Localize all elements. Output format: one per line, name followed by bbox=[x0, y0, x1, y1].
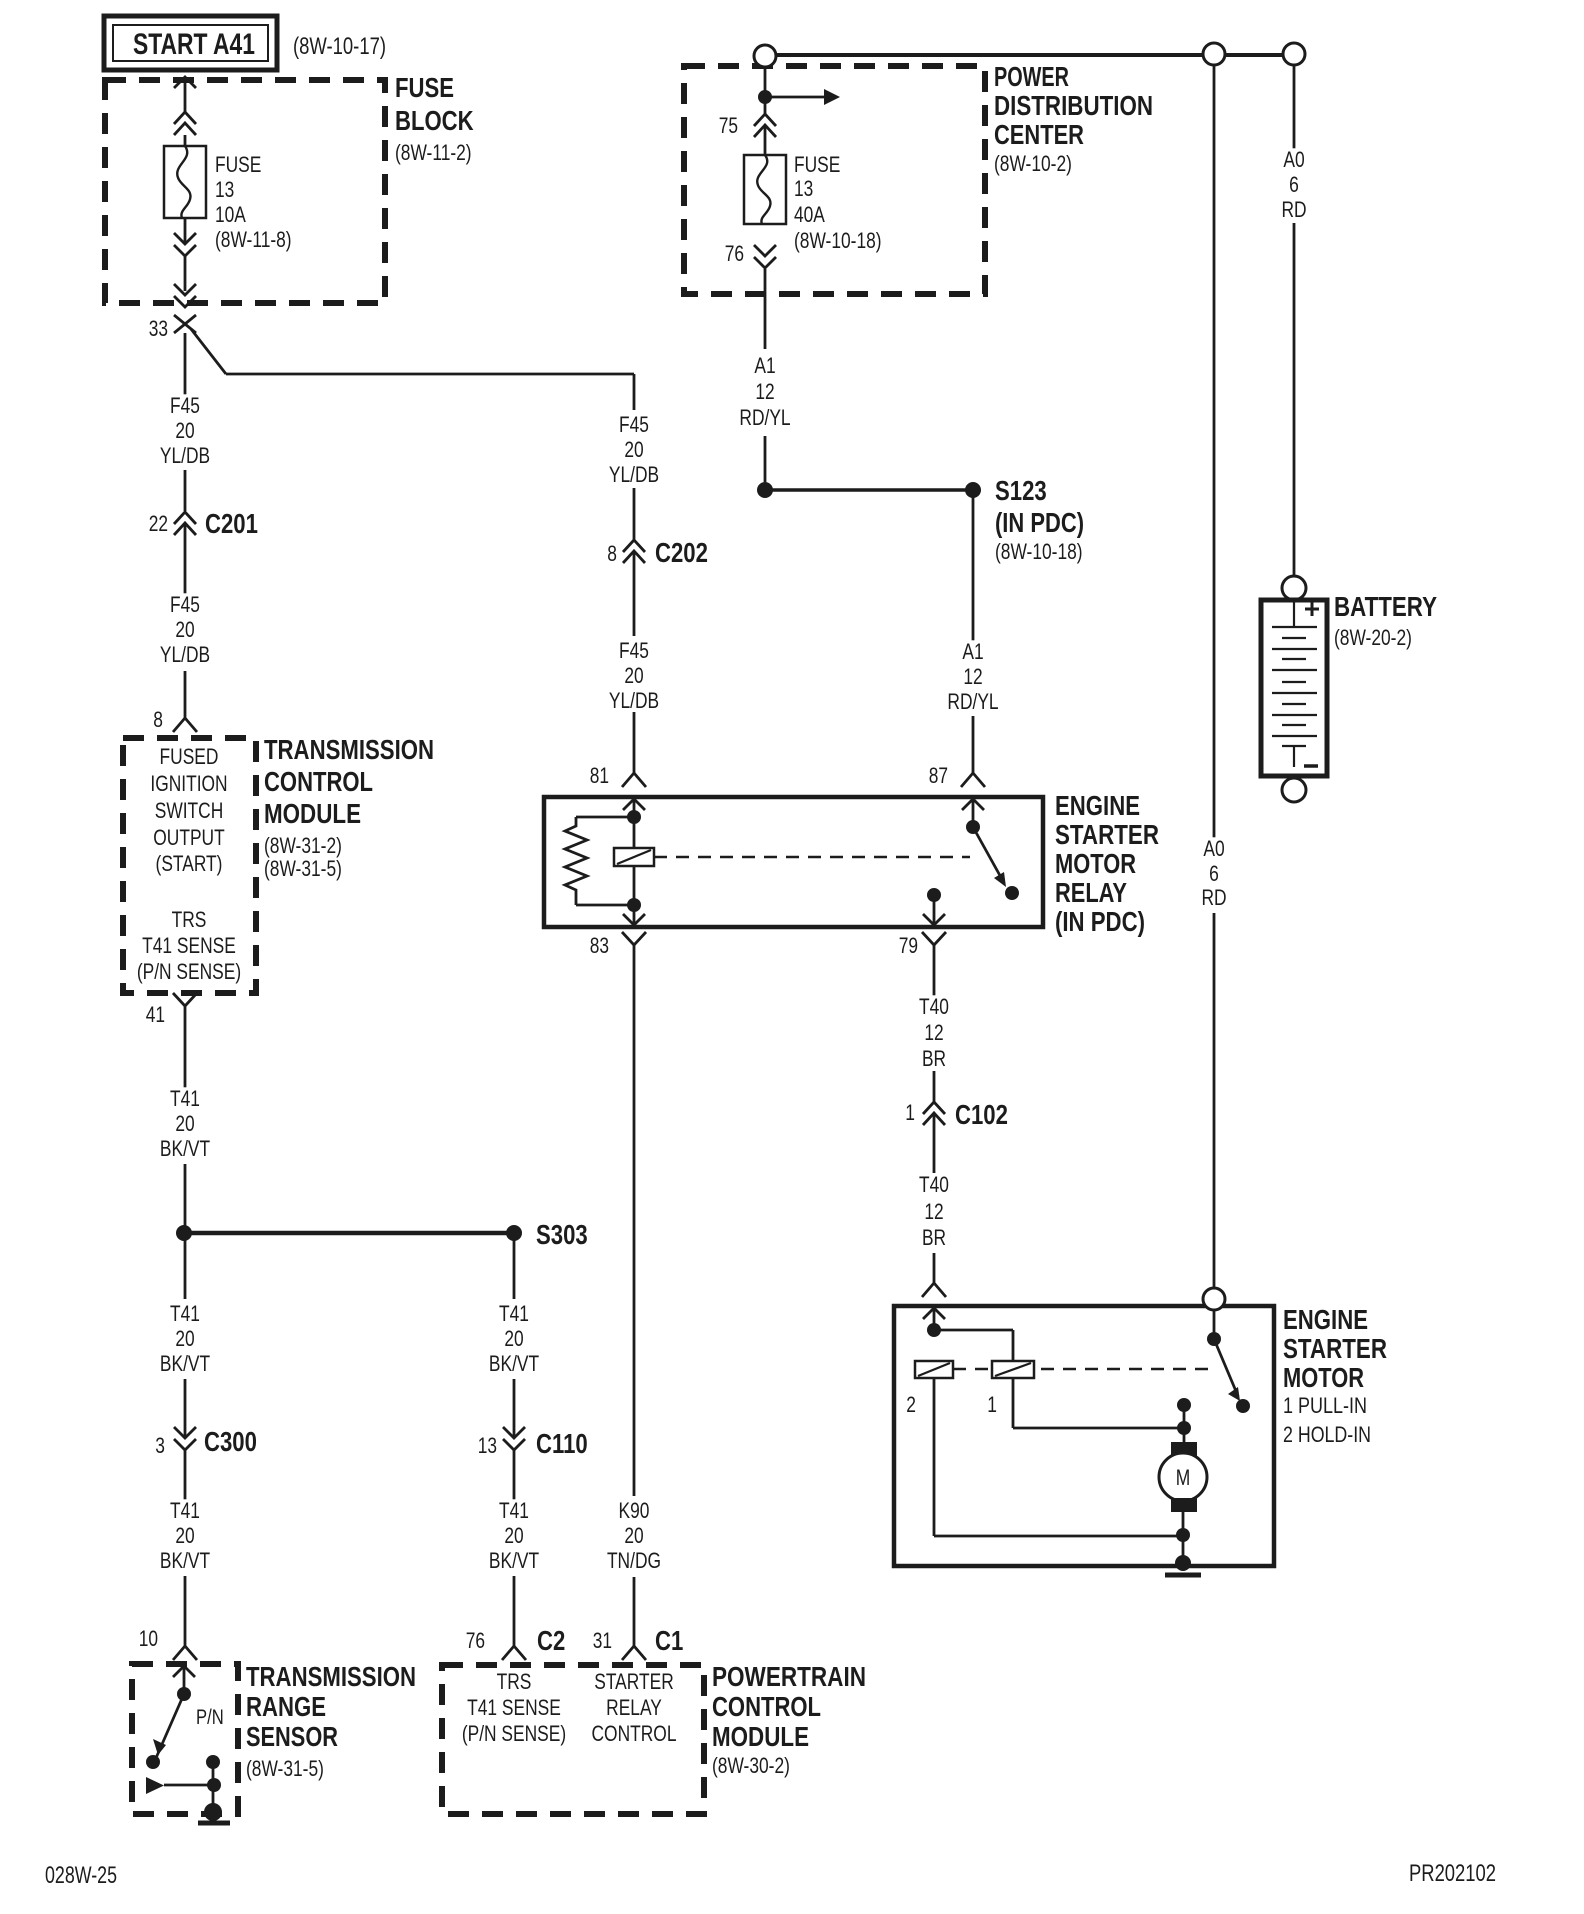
svg-text:SENSOR: SENSOR bbox=[246, 1721, 338, 1752]
svg-text:1: 1 bbox=[987, 1392, 997, 1417]
svg-text:(8W-31-5): (8W-31-5) bbox=[264, 856, 342, 881]
svg-text:P/N: P/N bbox=[196, 1706, 224, 1729]
svg-text:F45: F45 bbox=[170, 393, 200, 418]
svg-text:SWITCH: SWITCH bbox=[155, 798, 224, 823]
svg-text:13: 13 bbox=[215, 177, 234, 202]
svg-text:(P/N SENSE): (P/N SENSE) bbox=[137, 959, 241, 984]
svg-text:1 PULL-IN: 1 PULL-IN bbox=[1283, 1393, 1367, 1418]
svg-text:IGNITION: IGNITION bbox=[150, 771, 227, 796]
svg-text:T41: T41 bbox=[170, 1498, 200, 1523]
svg-text:BK/VT: BK/VT bbox=[489, 1548, 539, 1573]
svg-text:YL/DB: YL/DB bbox=[160, 642, 210, 667]
svg-text:K90: K90 bbox=[619, 1498, 650, 1523]
svg-text:F45: F45 bbox=[170, 592, 200, 617]
svg-text:TN/DG: TN/DG bbox=[607, 1548, 661, 1573]
svg-text:FUSE: FUSE bbox=[395, 72, 454, 103]
svg-text:79: 79 bbox=[899, 933, 918, 958]
svg-text:20: 20 bbox=[504, 1523, 523, 1548]
svg-text:RELAY: RELAY bbox=[606, 1695, 662, 1720]
svg-text:RELAY: RELAY bbox=[1055, 877, 1127, 908]
svg-text:(IN PDC): (IN PDC) bbox=[1055, 906, 1145, 937]
svg-text:33: 33 bbox=[149, 316, 168, 341]
svg-text:T40: T40 bbox=[919, 1172, 949, 1197]
svg-text:20: 20 bbox=[504, 1326, 523, 1351]
svg-text:T41: T41 bbox=[499, 1301, 529, 1326]
svg-text:BR: BR bbox=[922, 1225, 946, 1250]
svg-text:87: 87 bbox=[929, 763, 948, 788]
svg-text:75: 75 bbox=[719, 113, 738, 138]
svg-text:2 HOLD-IN: 2 HOLD-IN bbox=[1283, 1422, 1371, 1447]
svg-text:TRS: TRS bbox=[172, 907, 207, 932]
svg-text:76: 76 bbox=[725, 241, 744, 266]
svg-text:10A: 10A bbox=[215, 202, 246, 227]
svg-text:BK/VT: BK/VT bbox=[160, 1548, 210, 1573]
svg-text:13: 13 bbox=[478, 1433, 497, 1458]
svg-text:BK/VT: BK/VT bbox=[160, 1351, 210, 1376]
svg-text:M: M bbox=[1176, 1465, 1191, 1490]
svg-text:FUSED: FUSED bbox=[160, 744, 219, 769]
svg-text:T41 SENSE: T41 SENSE bbox=[467, 1695, 561, 1720]
svg-text:RD/YL: RD/YL bbox=[947, 689, 998, 714]
svg-text:T41: T41 bbox=[170, 1086, 200, 1111]
svg-text:TRANSMISSION: TRANSMISSION bbox=[264, 734, 434, 765]
svg-text:83: 83 bbox=[590, 933, 609, 958]
svg-text:81: 81 bbox=[590, 763, 609, 788]
svg-text:20: 20 bbox=[624, 437, 643, 462]
svg-text:T40: T40 bbox=[919, 994, 949, 1019]
svg-text:6: 6 bbox=[1289, 172, 1299, 197]
svg-text:8: 8 bbox=[607, 541, 617, 566]
svg-text:RD/YL: RD/YL bbox=[739, 405, 790, 430]
svg-text:(8W-30-2): (8W-30-2) bbox=[712, 1753, 790, 1778]
svg-text:12: 12 bbox=[924, 1020, 943, 1045]
svg-text:(IN PDC): (IN PDC) bbox=[995, 507, 1084, 538]
svg-text:POWERTRAIN: POWERTRAIN bbox=[712, 1661, 866, 1692]
svg-text:C201: C201 bbox=[205, 508, 258, 539]
svg-text:12: 12 bbox=[924, 1199, 943, 1224]
svg-text:20: 20 bbox=[175, 1326, 194, 1351]
svg-text:STARTER: STARTER bbox=[1283, 1333, 1387, 1364]
svg-text:PR202102: PR202102 bbox=[1409, 1860, 1496, 1887]
svg-text:CENTER: CENTER bbox=[994, 119, 1084, 150]
svg-text:BATTERY: BATTERY bbox=[1334, 591, 1437, 622]
svg-text:BLOCK: BLOCK bbox=[395, 105, 474, 136]
svg-text:MOTOR: MOTOR bbox=[1283, 1362, 1364, 1393]
svg-text:20: 20 bbox=[175, 418, 194, 443]
svg-text:TRS: TRS bbox=[497, 1669, 532, 1694]
svg-text:12: 12 bbox=[963, 664, 982, 689]
svg-text:C300: C300 bbox=[204, 1426, 257, 1457]
svg-text:ENGINE: ENGINE bbox=[1283, 1304, 1368, 1335]
svg-text:20: 20 bbox=[175, 617, 194, 642]
svg-text:C1: C1 bbox=[655, 1625, 683, 1656]
svg-text:T41: T41 bbox=[499, 1498, 529, 1523]
svg-text:MODULE: MODULE bbox=[712, 1721, 809, 1752]
svg-text:T41: T41 bbox=[170, 1301, 200, 1326]
svg-text:OUTPUT: OUTPUT bbox=[153, 825, 224, 850]
svg-text:31: 31 bbox=[593, 1628, 612, 1653]
svg-text:YL/DB: YL/DB bbox=[609, 688, 659, 713]
svg-text:CONTROL: CONTROL bbox=[712, 1691, 821, 1722]
svg-text:10: 10 bbox=[139, 1626, 158, 1651]
svg-text:POWER: POWER bbox=[994, 61, 1069, 92]
svg-text:20: 20 bbox=[175, 1523, 194, 1548]
svg-text:YL/DB: YL/DB bbox=[160, 443, 210, 468]
svg-text:YL/DB: YL/DB bbox=[609, 462, 659, 487]
svg-text:CONTROL: CONTROL bbox=[264, 766, 373, 797]
svg-text:FUSE: FUSE bbox=[794, 152, 840, 177]
svg-text:20: 20 bbox=[624, 1523, 643, 1548]
svg-text:C2: C2 bbox=[537, 1625, 565, 1656]
svg-text:(8W-31-5): (8W-31-5) bbox=[246, 1756, 324, 1781]
svg-text:BR: BR bbox=[922, 1046, 946, 1071]
svg-text:20: 20 bbox=[175, 1111, 194, 1136]
svg-text:1: 1 bbox=[905, 1100, 915, 1125]
svg-text:8: 8 bbox=[153, 707, 163, 732]
svg-text:41: 41 bbox=[146, 1002, 165, 1027]
svg-text:(8W-31-2): (8W-31-2) bbox=[264, 833, 342, 858]
svg-text:DISTRIBUTION: DISTRIBUTION bbox=[994, 90, 1153, 121]
svg-text:C202: C202 bbox=[655, 537, 708, 568]
svg-text:A1: A1 bbox=[754, 353, 775, 378]
svg-text:(8W-20-2): (8W-20-2) bbox=[1334, 625, 1412, 650]
svg-text:40A: 40A bbox=[794, 202, 825, 227]
svg-text:20: 20 bbox=[624, 663, 643, 688]
svg-text:STARTER: STARTER bbox=[594, 1669, 674, 1694]
svg-text:3: 3 bbox=[155, 1433, 165, 1458]
svg-text:A0: A0 bbox=[1203, 836, 1224, 861]
svg-text:STARTER: STARTER bbox=[1055, 819, 1159, 850]
svg-text:BK/VT: BK/VT bbox=[160, 1136, 210, 1161]
svg-text:F45: F45 bbox=[619, 412, 649, 437]
svg-text:(8W-10-18): (8W-10-18) bbox=[794, 228, 882, 253]
svg-text:MODULE: MODULE bbox=[264, 798, 361, 829]
svg-text:(8W-10-2): (8W-10-2) bbox=[994, 151, 1072, 176]
svg-text:ENGINE: ENGINE bbox=[1055, 790, 1140, 821]
svg-text:(8W-10-17): (8W-10-17) bbox=[293, 33, 386, 60]
svg-text:2: 2 bbox=[906, 1392, 916, 1417]
svg-text:028W-25: 028W-25 bbox=[45, 1862, 117, 1889]
svg-text:A1: A1 bbox=[962, 639, 983, 664]
svg-text:S303: S303 bbox=[536, 1219, 588, 1250]
svg-text:(8W-10-18): (8W-10-18) bbox=[995, 539, 1083, 564]
svg-text:(8W-11-2): (8W-11-2) bbox=[395, 140, 472, 165]
svg-text:TRANSMISSION: TRANSMISSION bbox=[246, 1661, 416, 1692]
svg-text:START A41: START A41 bbox=[133, 28, 255, 61]
svg-text:C110: C110 bbox=[536, 1428, 588, 1459]
svg-text:12: 12 bbox=[755, 379, 774, 404]
svg-text:76: 76 bbox=[466, 1628, 485, 1653]
svg-text:(P/N SENSE): (P/N SENSE) bbox=[462, 1721, 566, 1746]
svg-text:CONTROL: CONTROL bbox=[592, 1721, 677, 1746]
svg-text:FUSE: FUSE bbox=[215, 152, 261, 177]
svg-text:13: 13 bbox=[794, 176, 813, 201]
svg-text:A0: A0 bbox=[1283, 147, 1304, 172]
svg-text:BK/VT: BK/VT bbox=[489, 1351, 539, 1376]
svg-text:C102: C102 bbox=[955, 1099, 1008, 1130]
svg-text:6: 6 bbox=[1209, 861, 1219, 886]
svg-text:22: 22 bbox=[149, 511, 168, 536]
svg-text:(8W-11-8): (8W-11-8) bbox=[215, 227, 292, 252]
svg-text:RANGE: RANGE bbox=[246, 1691, 326, 1722]
svg-text:RD: RD bbox=[1281, 197, 1306, 222]
svg-text:S123: S123 bbox=[995, 475, 1047, 506]
svg-text:F45: F45 bbox=[619, 638, 649, 663]
svg-text:T41 SENSE: T41 SENSE bbox=[142, 933, 236, 958]
svg-text:RD: RD bbox=[1201, 885, 1226, 910]
svg-text:MOTOR: MOTOR bbox=[1055, 848, 1136, 879]
svg-text:(START): (START) bbox=[156, 851, 223, 876]
